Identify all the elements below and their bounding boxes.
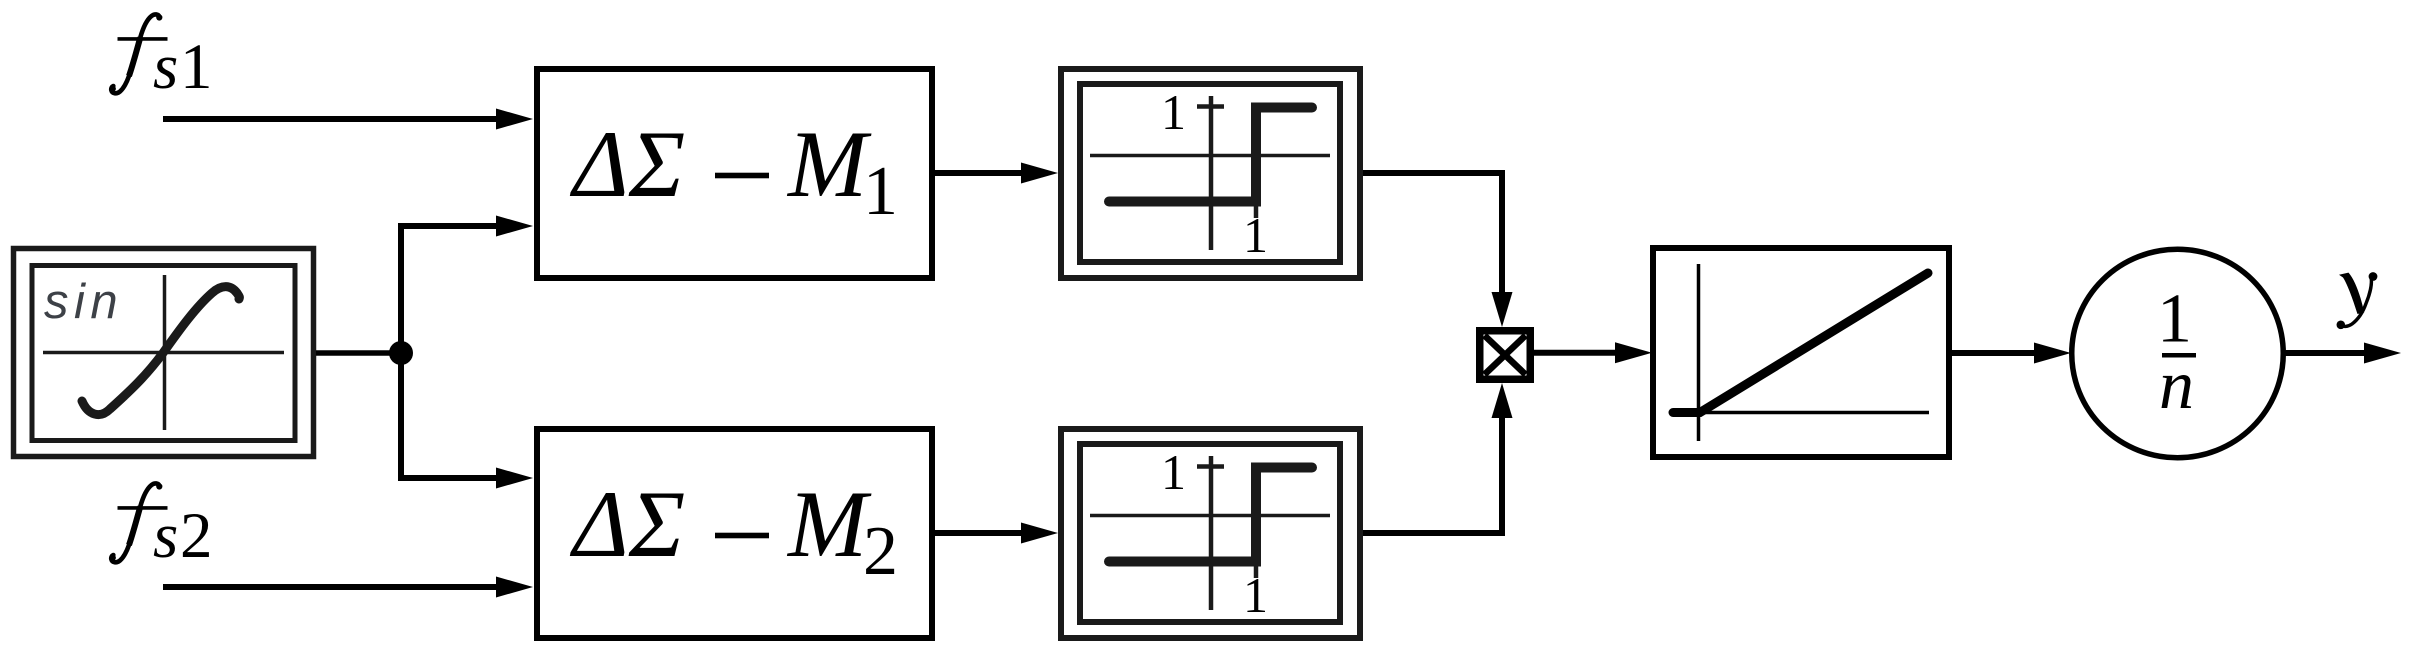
svg-text:1: 1 — [863, 153, 898, 230]
wire quantizer2 to multiplier — [1363, 383, 1513, 533]
svg-text:1: 1 — [180, 31, 213, 103]
svg-text:sin: sin — [44, 275, 123, 329]
sine source block (sin) — [14, 249, 314, 457]
svg-text:s: s — [153, 31, 178, 103]
block delta-sigma modulator DSM1 — [537, 69, 932, 278]
wire junction vertical branch — [398, 226, 404, 478]
wire ramp to divider circle arrow — [1952, 343, 2071, 364]
wire fs1 input arrow — [163, 109, 533, 130]
svg-text:1: 1 — [1243, 207, 1268, 263]
svg-text:2: 2 — [180, 500, 213, 572]
wire dsm1 to quantizer1 arrow — [935, 163, 1058, 184]
svg-text:1: 1 — [1161, 444, 1186, 500]
svg-text:ΔΣ: ΔΣ — [569, 111, 685, 217]
svg-text:1: 1 — [1243, 567, 1268, 623]
block ramp (integrator icon) — [1653, 248, 1949, 457]
wire quantizer1 to multiplier — [1363, 173, 1513, 327]
wire multiplier to ramp block arrow — [1534, 342, 1652, 363]
wire output arrow — [2285, 343, 2401, 364]
svg-text:1: 1 — [2157, 281, 2192, 358]
label delta-sigma M2 — [569, 471, 898, 590]
block divider circle 1/n — [2072, 249, 2284, 458]
wire branch to dsm2 arrow — [398, 468, 533, 489]
svg-text:M: M — [786, 471, 872, 577]
block multiplier (box with X) — [1480, 331, 1531, 380]
wire branch to dsm1 arrow — [398, 216, 533, 237]
wire sin output to junction — [316, 350, 401, 356]
svg-text:2: 2 — [863, 513, 898, 590]
label delta-sigma M1 — [569, 111, 898, 230]
node y output label — [2337, 272, 2378, 329]
block quantizer Q1 — [1061, 69, 1360, 278]
svg-text:ΔΣ: ΔΣ — [569, 471, 685, 577]
block delta-sigma modulator DSM2 — [537, 429, 932, 638]
wire fs2 input arrow — [163, 577, 533, 598]
label 1/n — [2157, 281, 2196, 425]
wire dsm2 to quantizer2 arrow — [935, 523, 1058, 544]
node fs1 label — [109, 14, 212, 103]
block quantizer Q2 — [1061, 429, 1360, 638]
svg-text:1: 1 — [1161, 84, 1186, 140]
svg-text:s: s — [153, 500, 178, 572]
node junction dot — [389, 341, 413, 365]
svg-text:n: n — [2159, 347, 2194, 424]
node fs2 label — [109, 483, 212, 572]
svg-text:M: M — [786, 111, 872, 217]
